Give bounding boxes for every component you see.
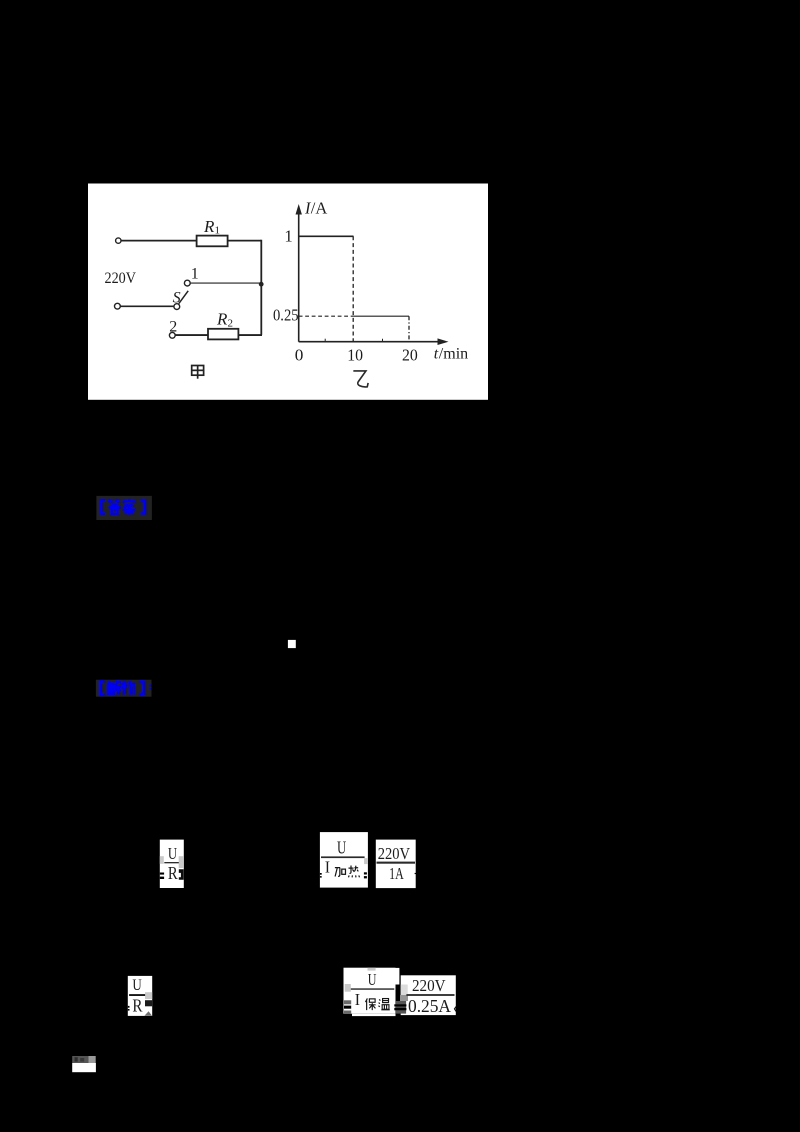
svg-text:U: U [368, 970, 377, 989]
svg-text:2: 2 [169, 318, 177, 335]
svg-text:2: 2 [228, 317, 234, 329]
svg-text:S: S [173, 289, 181, 306]
svg-text:220V: 220V [412, 976, 446, 995]
svg-text:0.25: 0.25 [273, 305, 299, 324]
svg-text:1: 1 [284, 226, 292, 245]
svg-text:R: R [216, 310, 228, 329]
svg-text:1: 1 [215, 225, 221, 237]
svg-text:I: I [325, 858, 330, 877]
svg-text:R: R [132, 995, 142, 1015]
svg-text:U: U [337, 837, 346, 857]
svg-text:220V: 220V [105, 268, 137, 287]
svg-text:1: 1 [191, 266, 199, 283]
svg-text:10: 10 [347, 345, 363, 364]
svg-text:220V: 220V [378, 844, 410, 863]
svg-text:0.25A: 0.25A [408, 996, 451, 1016]
svg-text:20: 20 [402, 345, 418, 364]
svg-text:/min: /min [439, 346, 468, 363]
svg-text:U: U [132, 977, 141, 994]
svg-text:0: 0 [295, 345, 304, 364]
svg-text:R: R [203, 217, 215, 236]
svg-text:R: R [168, 863, 178, 883]
svg-text:1A: 1A [389, 864, 404, 883]
svg-text:U: U [168, 844, 177, 863]
svg-text:/A: /A [311, 199, 328, 218]
svg-text:I: I [355, 990, 361, 1009]
